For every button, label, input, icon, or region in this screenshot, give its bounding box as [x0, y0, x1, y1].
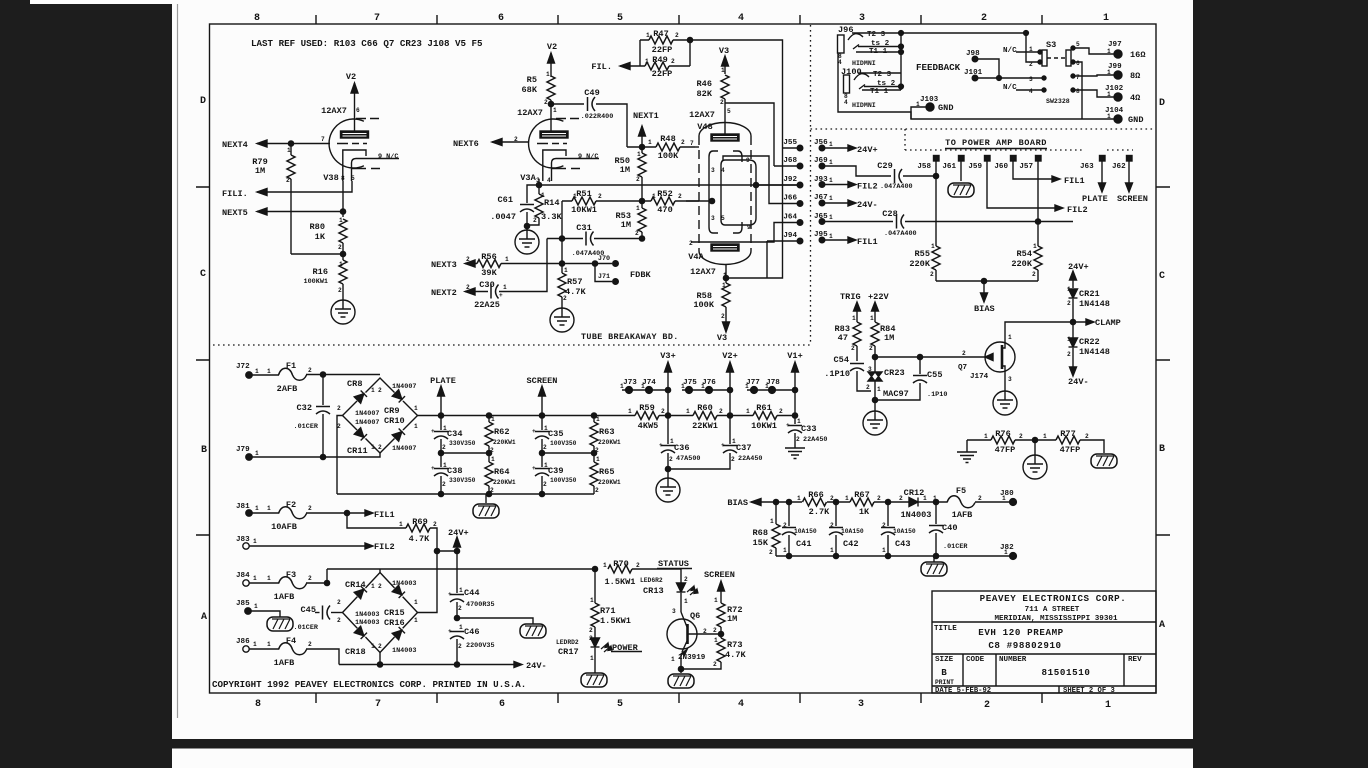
svg-text:TO POWER AMP BOARD: TO POWER AMP BOARD — [945, 138, 1047, 148]
svg-text:J81: J81 — [236, 503, 250, 511]
svg-text:R51: R51 — [576, 189, 591, 199]
svg-text:PLATE: PLATE — [430, 376, 456, 386]
resistor R53 — [638, 208, 646, 232]
svg-text:FIL1: FIL1 — [1064, 176, 1085, 186]
svg-text:1: 1 — [984, 433, 988, 440]
svg-text:1: 1 — [1008, 334, 1012, 341]
svg-text:4700R35: 4700R35 — [466, 601, 495, 609]
svg-text:CR15: CR15 — [384, 608, 405, 618]
arrow NEXT1 up — [639, 126, 646, 136]
svg-text:7: 7 — [321, 136, 325, 143]
arrow PLATE — [438, 386, 445, 416]
connector J86 — [243, 646, 249, 652]
underline TO POWER AMP BOARD — [945, 148, 1047, 150]
svg-text:2: 2 — [543, 481, 547, 488]
resistor R49 — [645, 62, 669, 70]
svg-text:CR13: CR13 — [643, 586, 664, 596]
svg-text:1: 1 — [371, 583, 375, 590]
node R84 gate — [872, 354, 877, 359]
svg-text:R61: R61 — [756, 403, 771, 413]
svg-text:5: 5 — [351, 175, 355, 182]
tube V3B cathode — [343, 150, 366, 181]
svg-text:J56: J56 — [814, 139, 828, 147]
svg-text:2: 2 — [595, 447, 599, 454]
svg-text:1: 1 — [732, 438, 736, 445]
pad J80 — [1010, 499, 1017, 506]
pad J70 — [613, 261, 619, 267]
svg-text:1N4003: 1N4003 — [392, 580, 416, 588]
svg-text:1M: 1M — [255, 166, 265, 176]
svg-text:J96: J96 — [838, 25, 853, 35]
wire R48 into pin7 — [695, 146, 699, 148]
svg-text:1M: 1M — [620, 165, 630, 175]
svg-text:8: 8 — [1076, 88, 1080, 95]
svg-text:CR16: CR16 — [384, 618, 405, 628]
svg-text:J95: J95 — [814, 231, 828, 239]
svg-text:1K: 1K — [859, 507, 870, 517]
ground Q7 — [993, 391, 1017, 415]
node bus C38 — [438, 491, 443, 496]
arrow SCREEN status — [718, 581, 725, 603]
svg-text:F5: F5 — [956, 486, 966, 496]
diode CR15 — [392, 585, 405, 598]
wire J72 to F1 — [252, 374, 279, 376]
wire J59 FIL2 — [987, 161, 1055, 208]
svg-text:47FP: 47FP — [995, 445, 1016, 455]
chassis ground C44 — [520, 624, 546, 638]
svg-text:SCREEN: SCREEN — [704, 570, 735, 580]
svg-text:CR11: CR11 — [347, 446, 368, 456]
svg-text:2: 2 — [678, 193, 682, 200]
svg-text:CR12: CR12 — [904, 488, 925, 498]
resistor R63 — [590, 422, 598, 446]
svg-text:R80: R80 — [310, 222, 325, 232]
svg-text:B: B — [1159, 444, 1165, 455]
pad J61 — [959, 156, 965, 162]
svg-text:2: 2 — [490, 447, 494, 454]
svg-text:1.5KW1: 1.5KW1 — [600, 616, 631, 626]
svg-text:711 A STREET: 711 A STREET — [1025, 606, 1080, 614]
svg-text:22A450: 22A450 — [738, 455, 762, 463]
node NEXT5 cathode — [340, 209, 345, 214]
svg-text:1N4148: 1N4148 — [1079, 347, 1110, 357]
svg-text:9 N/C: 9 N/C — [578, 153, 598, 161]
pad J68 — [797, 163, 803, 169]
svg-text:100V350: 100V350 — [550, 477, 577, 484]
arrows left signals — [257, 139, 502, 296]
capacitor C49 — [588, 97, 596, 111]
svg-text:2: 2 — [661, 408, 665, 415]
svg-text:Q6: Q6 — [690, 611, 700, 621]
pad J63 — [1100, 156, 1106, 162]
svg-text:9: 9 — [747, 224, 751, 231]
svg-text:D: D — [1159, 98, 1165, 109]
pad J95 — [819, 237, 825, 243]
svg-text:2: 2 — [378, 583, 382, 590]
svg-text:+: + — [448, 628, 452, 635]
svg-text:R14: R14 — [544, 198, 559, 208]
svg-text:CR18: CR18 — [345, 647, 366, 657]
tube V4B plate bar — [711, 134, 739, 141]
node C55 — [917, 354, 922, 359]
node F3 — [324, 580, 329, 585]
svg-text:1: 1 — [1029, 46, 1033, 53]
svg-text:V1+: V1+ — [787, 351, 802, 361]
svg-text:1M: 1M — [727, 614, 737, 624]
svg-text:R16: R16 — [313, 267, 328, 277]
node CLAMP — [1070, 319, 1075, 324]
bias bus — [936, 280, 1038, 282]
svg-text:3: 3 — [711, 215, 715, 222]
left black margin bar — [0, 4, 172, 768]
svg-text:5: 5 — [721, 215, 725, 222]
wire J83 FIL2 — [249, 543, 373, 549]
svg-text:1: 1 — [923, 495, 927, 502]
tube V3A cathode — [543, 150, 566, 181]
svg-text:1K: 1K — [315, 232, 326, 242]
svg-text:330V350: 330V350 — [449, 440, 476, 447]
svg-text:2: 2 — [378, 387, 382, 394]
svg-text:2: 2 — [636, 176, 640, 183]
svg-text:J84: J84 — [236, 572, 250, 580]
arrow V2 up R5 — [548, 53, 555, 63]
wire T2 bus J96 — [852, 32, 901, 34]
svg-text:R62: R62 — [494, 427, 509, 437]
ground plain C33 — [785, 448, 805, 459]
svg-text:+22V: +22V — [868, 292, 889, 302]
svg-text:C55: C55 — [927, 370, 942, 380]
svg-text:2: 2 — [1032, 271, 1036, 278]
svg-text:1.5KW1: 1.5KW1 — [605, 577, 636, 587]
svg-text:2: 2 — [635, 230, 639, 237]
wire pin5 plate V4B — [724, 131, 726, 134]
svg-text:1: 1 — [797, 418, 801, 425]
svg-text:1AFB: 1AFB — [952, 510, 973, 520]
svg-text:2: 2 — [962, 350, 966, 357]
wire R70 to CR13 — [632, 569, 681, 583]
svg-text:22FP: 22FP — [652, 45, 673, 55]
svg-text:V3: V3 — [719, 46, 729, 56]
svg-text:10KW1: 10KW1 — [751, 421, 777, 431]
wire pin5 to J97 — [1073, 48, 1114, 54]
svg-text:3: 3 — [868, 366, 872, 373]
node V1+ J78 — [792, 387, 797, 392]
svg-text:C61: C61 — [498, 195, 513, 205]
svg-text:CR23: CR23 — [884, 368, 905, 378]
switch S3 NC stub row1 — [1016, 51, 1040, 53]
pad J97 — [1114, 50, 1122, 58]
svg-text:T2 3: T2 3 — [867, 31, 886, 39]
svg-text:2: 2 — [796, 436, 800, 443]
svg-text:MERIDIAN, MISSISSIPPI 39301: MERIDIAN, MISSISSIPPI 39301 — [994, 615, 1117, 623]
node C35 C39 — [539, 450, 544, 455]
wire V2 plate V3B — [354, 83, 356, 131]
wire J70 stub — [595, 263, 612, 265]
connector J84 — [243, 580, 249, 586]
svg-text:1: 1 — [671, 656, 675, 663]
svg-text:ts 2: ts 2 — [871, 40, 890, 48]
svg-text:R64: R64 — [494, 467, 509, 477]
svg-text:2: 2 — [458, 643, 462, 650]
svg-text:NEXT3: NEXT3 — [431, 260, 457, 270]
node bus C39 — [539, 491, 544, 496]
svg-text:1: 1 — [852, 315, 856, 322]
svg-text:1: 1 — [371, 387, 375, 394]
pad J72 — [246, 372, 252, 378]
svg-text:MAC97: MAC97 — [883, 389, 909, 399]
svg-text:J69: J69 — [814, 157, 828, 165]
svg-text:9: 9 — [746, 157, 750, 164]
svg-text:FIL2: FIL2 — [1067, 205, 1088, 215]
node R47 right — [687, 37, 692, 42]
svg-text:B: B — [201, 445, 207, 456]
svg-text:+: + — [659, 442, 663, 449]
capacitor C28 — [897, 215, 905, 229]
capacitor C37 — [729, 416, 731, 445]
svg-text:1N4003: 1N4003 — [392, 647, 416, 655]
svg-text:C: C — [1159, 271, 1165, 282]
svg-text:Q7: Q7 — [958, 364, 968, 372]
switch S3 contact bars — [1042, 50, 1047, 66]
svg-text:4.7K: 4.7K — [565, 287, 586, 297]
svg-text:R48: R48 — [660, 134, 675, 144]
svg-text:2: 2 — [442, 481, 446, 488]
svg-text:1: 1 — [459, 587, 463, 594]
resistor R64 — [485, 462, 493, 486]
svg-text:1: 1 — [637, 151, 641, 158]
ground plain R76 — [957, 452, 977, 463]
svg-text:T2 3: T2 3 — [873, 71, 892, 79]
node triac gnd — [872, 397, 877, 402]
svg-text:2: 2 — [338, 244, 342, 251]
svg-text:220KW1: 220KW1 — [493, 439, 516, 446]
svg-text:1: 1 — [770, 518, 774, 525]
fuse F2 — [279, 507, 307, 519]
capacitor C32 — [322, 375, 324, 406]
svg-text:V2+: V2+ — [722, 351, 737, 361]
svg-text:CR21: CR21 — [1079, 289, 1100, 299]
svg-text:V38: V38 — [323, 173, 338, 183]
node R79 top — [288, 141, 293, 146]
wire R48 row — [627, 146, 695, 148]
wire J73 J74 row — [622, 389, 668, 391]
svg-text:220KW1: 220KW1 — [493, 479, 516, 486]
svg-text:1N4003: 1N4003 — [355, 619, 379, 627]
diode CR21 — [1069, 289, 1078, 298]
svg-text:J101: J101 — [964, 69, 983, 77]
node R70 R71 — [592, 566, 597, 571]
svg-text:2: 2 — [779, 408, 783, 415]
bottom black band — [170, 739, 1195, 749]
wire bridge right out — [418, 415, 796, 417]
triac CR23 — [874, 357, 876, 372]
wire F2 FIL1 — [306, 510, 373, 516]
svg-text:C33: C33 — [801, 424, 816, 434]
node rail R63 — [591, 413, 596, 418]
svg-text:1: 1 — [573, 193, 577, 200]
pad J62 — [1127, 156, 1133, 162]
wire TRIG arrow — [854, 302, 861, 322]
resistor R79 — [287, 155, 295, 179]
wire F3 to status rail — [306, 569, 595, 583]
svg-text:1AFB: 1AFB — [274, 658, 295, 668]
capacitor C61 — [527, 185, 539, 203]
wire pin6 drop — [1073, 62, 1082, 119]
svg-text:2: 2 — [466, 256, 470, 263]
svg-text:J68: J68 — [783, 157, 797, 165]
svg-text:J75: J75 — [683, 379, 697, 387]
svg-text:5: 5 — [617, 699, 623, 710]
svg-text:1: 1 — [414, 405, 418, 412]
capacitor C34 — [440, 416, 442, 431]
svg-text:A: A — [1159, 620, 1165, 631]
wire Q6 emitter — [680, 654, 682, 669]
node 24V+ col — [454, 548, 459, 553]
svg-text:COPYRIGHT 1992 PEAVEY ELECTRON: COPYRIGHT 1992 PEAVEY ELECTRONICS CORP. … — [212, 679, 526, 690]
node R69 tap — [344, 510, 349, 515]
pad J65 — [819, 219, 825, 225]
node C61 R14 — [524, 223, 529, 228]
svg-text:1: 1 — [714, 597, 718, 604]
svg-text:24V+: 24V+ — [1068, 262, 1089, 272]
svg-text:68K: 68K — [522, 85, 538, 95]
resistor R52 — [651, 197, 675, 205]
svg-text:22A450: 22A450 — [803, 436, 827, 444]
gate wire Q7 — [875, 354, 993, 361]
svg-text:C35: C35 — [548, 429, 563, 439]
supply ground bus — [337, 493, 594, 495]
wire R76 left gnd — [967, 440, 991, 452]
svg-text:2: 2 — [675, 32, 679, 39]
wire J57 down — [1037, 161, 1039, 246]
svg-text:2: 2 — [337, 405, 341, 412]
svg-text:V48: V48 — [697, 122, 712, 132]
wire CR13 to Q6 — [680, 593, 682, 612]
svg-text:N/C: N/C — [1003, 47, 1017, 55]
pad J104 — [1114, 115, 1122, 123]
capacitor C39 — [535, 469, 549, 477]
svg-text:1: 1 — [399, 521, 403, 528]
svg-text:1: 1 — [1004, 549, 1008, 556]
transistor Q7 — [985, 342, 1015, 372]
svg-text:2: 2 — [378, 643, 382, 650]
node R62 R64 — [486, 450, 491, 455]
svg-text:R49: R49 — [652, 55, 667, 65]
resistor R56 — [477, 260, 501, 268]
svg-text:F2: F2 — [286, 500, 296, 510]
svg-text:3: 3 — [1008, 376, 1012, 383]
svg-text:2200V35: 2200V35 — [466, 642, 495, 650]
wire J58 down — [935, 161, 937, 246]
svg-text:J55: J55 — [783, 139, 797, 147]
svg-text:NEXT1: NEXT1 — [633, 111, 659, 121]
svg-text:2: 2 — [981, 13, 987, 24]
resistor R60 — [693, 412, 717, 420]
svg-text:V2: V2 — [547, 42, 557, 52]
resistor R16 — [339, 260, 347, 284]
arrow J62 down — [1126, 161, 1133, 192]
svg-text:220K: 220K — [909, 259, 930, 269]
wire NEXT3 row — [465, 263, 595, 265]
wire J75 J76 row — [682, 389, 730, 391]
node C49 tap — [548, 101, 553, 106]
svg-text:2: 2 — [589, 635, 593, 642]
svg-text:12AX7: 12AX7 — [517, 108, 543, 118]
svg-text:39K: 39K — [481, 268, 497, 278]
resistor R61 — [753, 412, 777, 420]
svg-text:1N4007: 1N4007 — [392, 383, 416, 391]
svg-text:4: 4 — [738, 13, 744, 24]
svg-text:2: 2 — [877, 495, 881, 502]
node V3+ J74 — [665, 387, 670, 392]
svg-text:100K: 100K — [693, 300, 714, 310]
wire 24V+ J56 — [822, 145, 856, 151]
node rail SCREEN — [539, 413, 544, 418]
J100 tap curve — [854, 74, 869, 80]
svg-text:2: 2 — [1085, 433, 1089, 440]
svg-text:2: 2 — [899, 495, 903, 502]
svg-text:6: 6 — [356, 107, 360, 114]
svg-text:1: 1 — [686, 408, 690, 415]
svg-text:2: 2 — [308, 641, 312, 648]
svg-text:J103: J103 — [920, 96, 939, 104]
node bus R64 — [486, 491, 491, 496]
svg-text:.047A400: .047A400 — [884, 230, 917, 238]
pad J78 — [769, 387, 776, 394]
svg-text:J71: J71 — [598, 273, 610, 281]
svg-text:2: 2 — [681, 139, 685, 146]
svg-text:+: + — [448, 591, 452, 598]
tube V3B lower dashes — [352, 168, 380, 170]
wire R5 to plate — [550, 100, 552, 131]
pad J81 — [246, 510, 252, 516]
diode CR9 — [392, 390, 405, 403]
pad J93 — [819, 182, 825, 188]
wire T1 row J100 — [862, 89, 901, 91]
node C44 C46 — [454, 615, 459, 620]
wire bridge2 bottom out — [379, 653, 381, 665]
svg-text:1: 1 — [459, 624, 463, 631]
wire R71 column — [594, 569, 596, 603]
wire J69 to C29 — [822, 166, 891, 176]
wire J68 stub — [774, 165, 797, 167]
tube V3A grid dashes — [537, 143, 567, 145]
wire J65 C28 row — [822, 221, 1073, 223]
resistor R14 — [535, 194, 543, 218]
svg-text:1: 1 — [267, 368, 271, 375]
wire bridge2 right out — [418, 551, 438, 613]
svg-text:F3: F3 — [286, 570, 296, 580]
svg-text:V3A: V3A — [520, 173, 536, 183]
svg-text:+: + — [431, 465, 435, 472]
svg-text:F4: F4 — [286, 636, 296, 646]
svg-text:1: 1 — [933, 495, 937, 502]
svg-text:1: 1 — [414, 599, 418, 606]
svg-text:3: 3 — [1029, 76, 1033, 83]
svg-text:1: 1 — [721, 67, 725, 74]
wire J81 to F2 — [252, 512, 279, 514]
capacitor C45 — [331, 612, 343, 614]
svg-text:2: 2 — [713, 627, 717, 634]
svg-text:A: A — [201, 612, 207, 623]
svg-text:+: + — [532, 428, 536, 435]
svg-text:4: 4 — [721, 167, 725, 174]
svg-text:1: 1 — [670, 438, 674, 445]
wire NEXT4 — [257, 143, 330, 145]
svg-text:5: 5 — [617, 13, 623, 24]
svg-text:J70: J70 — [598, 255, 610, 263]
svg-text:STATUS: STATUS — [658, 559, 689, 569]
